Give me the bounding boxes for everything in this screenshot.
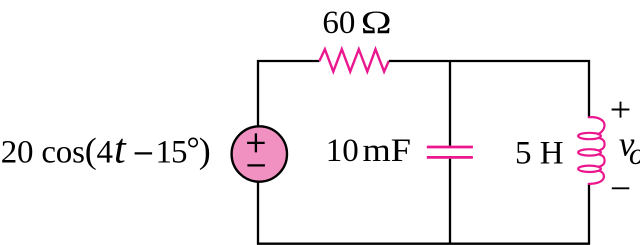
svg-text:Ω: Ω — [361, 5, 392, 41]
label vo minus sign — [612, 187, 630, 189]
svg-text:mF: mF — [363, 133, 412, 169]
inductor L 5H coil loop 2 — [578, 149, 601, 155]
label vo plus sign — [612, 102, 630, 118]
wire bottom rail (left vertical below source + bottom horizontal + right vertical below inductor) — [258, 181, 589, 244]
inductor L 5H connector arc 1 — [599, 138, 605, 151]
inductor L 5H bottom hook — [589, 171, 604, 184]
wire top-left (left vertical + top horizontal to resistor) — [258, 61, 319, 127]
svg-text:10: 10 — [326, 133, 359, 169]
voltage source plus sign — [247, 133, 265, 152]
inductor L 5H coil loop 3 — [578, 166, 601, 172]
inductor L 5H connector arc 2 — [599, 154, 605, 167]
resistor R 60ohm zigzag — [319, 49, 388, 71]
voltage source minus sign — [247, 164, 265, 166]
inductor L 5H coil loop 1 — [578, 133, 601, 139]
voltage source VS circle — [232, 126, 287, 181]
wire middle vertical lower (capacitor bottom plate to bottom rail) — [449, 159, 451, 244]
wire top-right (top horizontal from resistor + right vertical down to inductor) — [389, 61, 589, 117]
label source value minus sign — [135, 152, 153, 154]
capacitor C 10mF top plate — [427, 146, 473, 149]
svg-text:5 H: 5 H — [515, 136, 564, 172]
wire middle vertical upper (node to capacitor top plate) — [449, 61, 451, 146]
capacitor C 10mF bottom plate — [427, 156, 473, 159]
svg-text:60: 60 — [322, 5, 355, 41]
svg-text:15°): 15°) — [156, 130, 210, 170]
inductor L 5H top hook — [589, 117, 605, 134]
